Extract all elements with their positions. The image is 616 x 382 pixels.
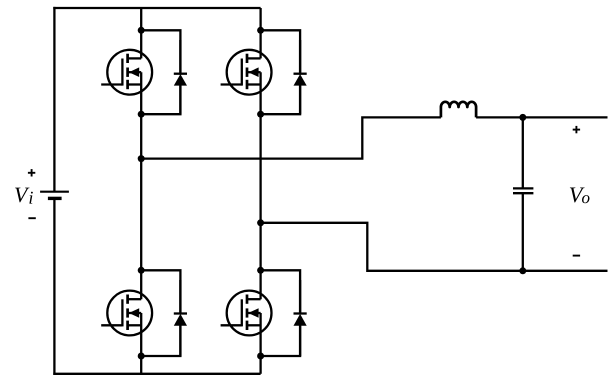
diode D1 (body diode, pointing up) [174, 40, 187, 114]
wire node A to inductor (leg1 midpoint out) [141, 117, 441, 158]
wire Q2 diode branch bottom [261, 86, 301, 115]
wire leg2 middle (Q2 source to Q4 drain) [259, 72, 261, 299]
wire top rail [53, 7, 260, 9]
wire Q4 diode branch bottom [261, 326, 301, 356]
diode D4 (body diode, pointing up) [294, 280, 307, 356]
wire bottom rail [53, 373, 260, 375]
label: plus sign of Vo [573, 126, 580, 133]
node leg1 top diode rejoin (junction dot) [138, 111, 145, 118]
node leg2 bottom diode rejoin (junction dot) [257, 353, 264, 360]
wire Q2 diode branch top [261, 30, 301, 73]
node capacitor bottom junction (junction dot) [519, 267, 526, 274]
wire Q3 diode branch bottom [141, 326, 180, 356]
node leg1 bottom diode rejoin (junction dot) [138, 353, 145, 360]
transistor Q4 (N-MOSFET) [221, 291, 272, 336]
wire leg1 lower (Q3 source to bottom rail) [140, 313, 142, 374]
label: Vi [15, 188, 29, 203]
node leg1 top diode tap (junction dot) [138, 27, 145, 34]
wire leg2 upper (top rail to Q2 drain) [259, 8, 261, 58]
inductor L1 [441, 102, 476, 118]
node node B (leg2 midpoint) (junction dot) [257, 219, 264, 226]
wire inductor to output + terminal [476, 116, 607, 118]
node node A (leg1 midpoint) (junction dot) [138, 155, 145, 162]
wire leg1 middle (Q1 source to Q3 drain) [140, 72, 142, 299]
capacitor C1 (output filter) [513, 188, 533, 193]
diode D2 (body diode, pointing up) [294, 40, 307, 114]
wire Q4 diode branch top [261, 270, 301, 313]
node capacitor top junction (junction dot) [519, 114, 526, 121]
label: minus sign of Vi [28, 217, 35, 219]
wire node B to output - rail (leg2 midpoint out) [261, 223, 608, 271]
label: minus sign of Vo [573, 255, 580, 257]
wire leg1 upper (top rail to Q1 drain) [140, 8, 142, 58]
transistor Q2 (N-MOSFET) [221, 50, 272, 95]
label: Vo [570, 187, 585, 202]
node leg2 top diode tap (junction dot) [257, 27, 264, 34]
wire leg2 lower (Q4 source to bottom rail) [259, 313, 261, 374]
node leg2 bottom diode tap (junction dot) [257, 267, 264, 274]
wire left rail upper (top rail to battery +) [53, 7, 55, 192]
diode D3 (body diode, pointing up) [174, 280, 187, 356]
wire capacitor top lead [522, 117, 524, 188]
wire Q3 diode branch top [141, 270, 180, 313]
node leg1 bottom diode tap (junction dot) [138, 267, 145, 274]
transistor Q1 (N-MOSFET) [101, 50, 152, 95]
label: plus sign of Vi [28, 169, 35, 176]
wire Q1 diode branch top [141, 30, 180, 73]
wire capacitor bottom lead [522, 193, 524, 270]
battery Vi (input source) [40, 192, 69, 199]
node leg2 top diode rejoin (junction dot) [257, 111, 264, 118]
wire Q1 diode branch bottom [141, 86, 180, 115]
wire left rail lower (battery - to bottom rail) [53, 198, 55, 375]
transistor Q3 (N-MOSFET) [101, 291, 152, 336]
